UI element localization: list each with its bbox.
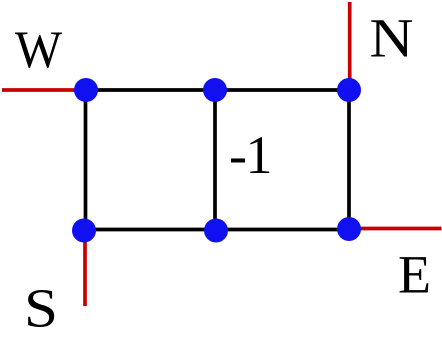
svg-text:S: S xyxy=(24,278,58,339)
svg-text:E: E xyxy=(398,245,431,305)
svg-text:N: N xyxy=(370,8,414,69)
svg-text:W: W xyxy=(15,21,62,79)
svg-text:-1: -1 xyxy=(229,125,271,185)
